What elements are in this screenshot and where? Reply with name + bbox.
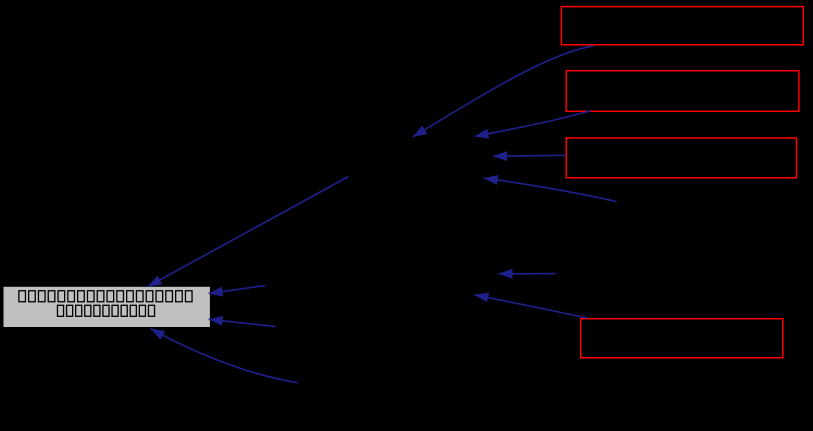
edge E6: hidden node -> gray node (right upper) <box>209 286 266 294</box>
node box R3 (red) <box>566 138 796 178</box>
edge E7: hidden node -> gray node (right lower) <box>209 319 276 326</box>
edge E5: center node -> gray node <box>148 177 349 287</box>
current node (gray, left) <box>4 287 210 327</box>
edge E1: box R1 -> center node <box>413 46 594 137</box>
tofu glyph row 2 (11 boxes) <box>57 305 154 316</box>
edge E4: hidden node -> center node <box>484 178 617 202</box>
edge E8: hidden node -> gray node (bottom curve) <box>151 329 298 383</box>
edge E2: box R2 -> center node <box>475 111 591 137</box>
node box R4 (bottom right, red) <box>581 319 783 358</box>
edge E9: hidden node -> hidden node (short horizontal) <box>499 273 556 275</box>
node box R2 (red) <box>566 71 799 112</box>
tofu glyph row 1 (18 boxes) <box>19 291 192 302</box>
edges <box>148 46 617 383</box>
node box R1 (top right, red) <box>561 7 803 45</box>
edge E3: box R3 -> center node <box>493 155 566 156</box>
edge E10: box R4 -> hidden node <box>474 295 587 318</box>
